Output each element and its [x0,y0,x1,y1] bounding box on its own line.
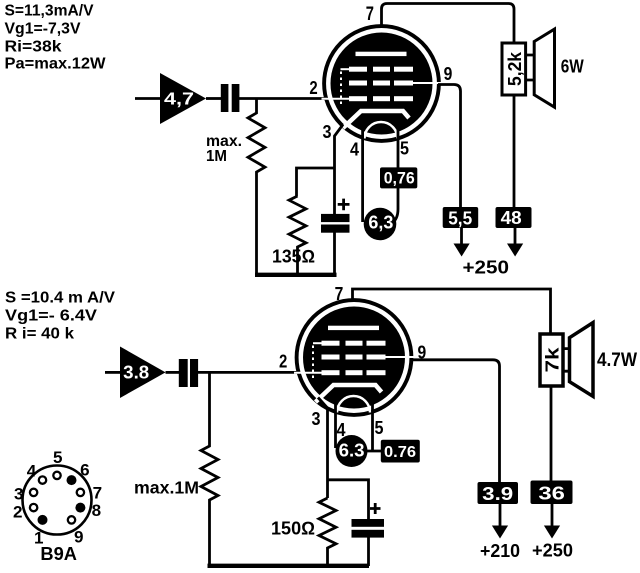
socket pin 2 [30,504,37,511]
heater current box 0,76 (top) [380,167,417,188]
grid g1 row dash [367,370,386,375]
svg-text:Pa=max.12W: Pa=max.12W [5,56,107,73]
grid g2 row dash [394,81,413,86]
anode voltage box 48 [496,207,532,228]
speaker connection lines (bottom) [563,349,569,372]
svg-text:4: 4 [350,140,359,160]
ground bus wire (bottom circuit) [208,564,370,568]
svg-text:1M: 1M [206,148,227,165]
heater filament arc [337,396,370,413]
svg-text:Vg1=- 6.4V: Vg1=- 6.4V [5,308,97,325]
svg-text:2: 2 [279,352,287,372]
svg-text:+250: +250 [463,257,510,277]
svg-text:7: 7 [93,484,103,503]
cathode bypass capacitor (top) [321,214,350,222]
output transformer primary box 7k [540,334,563,386]
heater pin 5 wire (bottom) [371,402,374,451]
cathode bypass capacitor (bottom) [352,519,385,527]
svg-text:5: 5 [53,448,63,467]
socket pin 9 [68,516,75,523]
g3 internal lead [313,342,322,344]
heater pin 4 wire (bottom) [334,402,337,448]
svg-text:+250: +250 [532,541,573,561]
pin 7 wire and anode top wire to output transformer [382,4,515,45]
svg-text:R i= 40 k: R i= 40 k [5,326,74,343]
socket pin 1 (filled) [38,515,48,525]
g1 lead to pin 2 [322,98,350,100]
svg-text:8: 8 [92,501,102,520]
grid g3 row dash [367,341,386,346]
svg-text:B9A: B9A [40,544,77,564]
wire triangle to capacitor (bottom) [166,371,180,374]
pin 3 cathode wire down (bottom) [318,398,328,499]
tube inner black disc [331,33,433,135]
grid g1 row dash [322,370,340,375]
g3-cathode dotted internal link [340,72,342,107]
socket pin 4 [39,476,46,483]
arrow below 5,5 to +250 [460,228,463,245]
screen voltage box 5,5 [443,207,479,228]
tube inner black disc [303,307,405,409]
svg-text:3.9: 3.9 [482,483,513,504]
g2 lead to pin 9 [386,356,415,358]
grid g2 row dash [349,81,367,86]
svg-text:36: 36 [538,483,565,504]
speaker connection lines (top) [526,55,534,80]
svg-text:2: 2 [13,502,23,521]
svg-text:0.76: 0.76 [384,444,416,461]
socket pin 6 (filled) [67,475,77,485]
grid g2 row dash [322,355,340,360]
input transducer triangle 3.8 (bottom) [120,347,166,399]
svg-text:5,2k: 5,2k [505,51,525,86]
svg-text:5: 5 [375,418,384,438]
wire 5,2k bottom to 48 box [513,95,516,207]
coupling capacitor (bottom) [179,359,188,387]
arrow below 48 to +250 [514,228,517,245]
svg-text:6.3: 6.3 [339,441,365,461]
wire capacitor to ground bus (bottom) [367,537,370,566]
heater voltage circle 6,3 (top) [364,208,397,241]
svg-text:3: 3 [323,122,332,142]
tube envelope outer circle [324,26,439,141]
anode plate bar [356,52,407,56]
grid g3 row dash [373,67,390,72]
svg-text:2: 2 [309,78,317,98]
svg-text:5,5: 5,5 [448,207,472,228]
svg-text:135Ω: 135Ω [272,247,315,267]
grid g3 row dash [349,67,367,72]
screen voltage box 3.9 [478,482,519,504]
grid g2 row dash [367,355,386,360]
svg-text:0,76: 0,76 [384,169,415,188]
cathode bypass capacitor plus sign (top) [338,199,350,211]
input transducer triangle 4,7 (top) [160,73,206,124]
heater voltage circle 6.3 (bottom) [336,435,368,467]
cathode resistor 135 ohm [289,196,306,274]
wire capacitor to ground bus [333,232,336,274]
svg-text:5: 5 [400,139,409,159]
cathode [316,385,382,402]
socket pin 7 [77,489,84,496]
svg-text:6,3: 6,3 [368,213,393,233]
arrow below 3.9 to +210 [499,504,502,527]
pin 3 cathode wire down [335,125,344,215]
ground bus wire (top circuit) [255,273,337,277]
g2 lead to pin 9 [413,82,442,84]
socket pin 5 [53,472,60,479]
anode voltage box 36 [531,481,573,505]
wire capacitor to grid pin 2 (bottom) [198,371,300,374]
cathode resistor 150 ohm [319,498,336,566]
pin 9 screen wire to 5,5 box [438,85,461,208]
wire input left (bottom circuit) [105,371,121,374]
svg-text:4,7: 4,7 [164,88,194,108]
grid g1 row dash [373,96,390,101]
tube envelope outer circle [297,300,412,415]
svg-text:7: 7 [366,3,374,25]
svg-text:Ri=38k: Ri=38k [5,39,62,56]
loudspeaker cone (top) [534,29,554,107]
grid g3 row dash [322,341,340,346]
anode plate bar [328,326,379,330]
svg-text:max.1M: max.1M [134,478,199,498]
loudspeaker cone (bottom) [570,323,594,397]
svg-text:3: 3 [312,409,321,429]
grid g1 row dash [349,96,367,101]
g3-cathode dotted internal link [312,346,314,381]
cathode bypass capacitor plus sign (bottom) [370,503,381,514]
svg-text:S=11,3mA/V: S=11,3mA/V [5,3,94,20]
wire triangle to capacitor [206,97,221,100]
grid g2 row dash [373,81,390,86]
svg-text:3.8: 3.8 [123,363,149,383]
B9A socket outline circle [23,466,92,535]
wire input left (top circuit) [135,97,161,100]
g3 internal lead [341,68,350,70]
wire capacitor to grid pin 2 [239,97,328,100]
svg-text:4.7W: 4.7W [597,350,637,371]
pin 9 screen wire to 3.9 box [410,360,500,482]
svg-text:7k: 7k [543,346,563,372]
heater current box 0.76 (bottom) [381,440,420,463]
grid g1 row dash [346,370,363,375]
output transformer primary box 5,2k [502,43,526,95]
arrow below 36 to +250 [551,504,554,527]
svg-text:3: 3 [14,485,24,504]
grid g2 row dash [346,355,363,360]
grid resistor max.1M (bottom) [201,372,218,566]
grid g3 row dash [346,341,363,346]
svg-text:48: 48 [501,208,522,228]
cathode [343,111,409,128]
g1 lead to pin 2 [294,372,322,374]
svg-text:9: 9 [444,64,453,84]
svg-text:4: 4 [27,462,37,481]
coupling capacitor (top) [221,84,229,112]
svg-text:6: 6 [80,461,90,480]
pin 7 wire and top wire to 7k transformer [353,289,551,334]
svg-text:7: 7 [335,284,344,304]
grid resistor max. 1M (top) [248,99,265,275]
heater pin 5 wire [392,128,398,223]
wire 6.3 circle to 0.76 box [364,450,381,453]
wire 7k bottom to 36 box [550,386,553,481]
heater filament arc [365,122,398,138]
svg-text:150Ω: 150Ω [271,517,315,538]
grid g1 row dash [394,96,413,101]
cathode node wire to 135 ohm branch [297,168,335,196]
svg-text:6W: 6W [561,56,584,77]
socket pin 3 [30,489,37,496]
grid g3 row dash [394,67,413,72]
cathode node wire to bypass cap (bottom) [328,480,369,519]
heater pin 4 wire [361,128,364,222]
socket pin 8 (filled) [75,503,85,513]
svg-text:+210: +210 [480,540,520,561]
svg-text:S =10.4 m A/V: S =10.4 m A/V [5,290,115,307]
svg-text:Vg1=-7,3V: Vg1=-7,3V [5,21,81,38]
